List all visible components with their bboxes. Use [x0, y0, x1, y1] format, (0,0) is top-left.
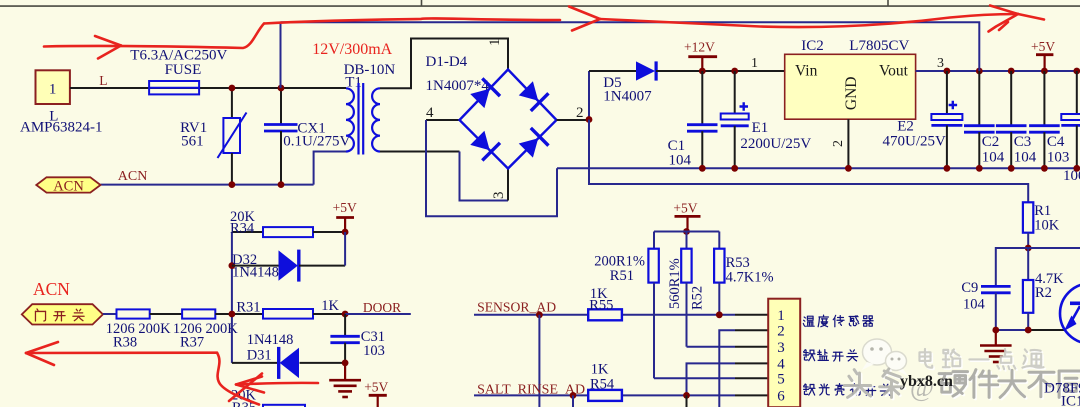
svg-text:R34: R34 — [230, 220, 255, 236]
svg-text:R55: R55 — [589, 298, 613, 314]
svg-text:C9: C9 — [961, 280, 978, 296]
resistor R52 560R1% — [686, 232, 688, 249]
svg-text:R38: R38 — [113, 335, 137, 351]
sheet border line — [0, 5, 1080, 7]
ground symbol (door) — [344, 363, 346, 380]
resistor R53 4.7K1% — [718, 232, 720, 249]
resistor R2 4.7K — [1027, 248, 1029, 280]
svg-text:12V/300mA: 12V/300mA — [312, 41, 392, 58]
wire SALT_RINSE_AD — [474, 394, 588, 396]
wire door net — [103, 313, 117, 315]
power +5V symbol (R34) — [344, 218, 346, 233]
svg-text:1N4148: 1N4148 — [232, 265, 279, 281]
svg-text:103: 103 — [363, 343, 385, 359]
varistor RV1 561 — [231, 88, 233, 118]
wire bridge pin2 node — [557, 119, 590, 121]
red annotation: top long line — [264, 18, 560, 23]
resistor R37 1206 200K — [182, 309, 215, 318]
border tick 2 — [887, 0, 889, 6]
wire emitter/gnd rail — [996, 329, 1028, 331]
wire sensor branch down — [538, 315, 540, 407]
wire L (connector to transformer) — [70, 87, 346, 89]
svg-text:ACN: ACN — [118, 169, 148, 184]
watermark text yingjian-dabutong — [941, 371, 1080, 399]
label salt switch (CJK) — [804, 350, 815, 361]
diode D (bridge top-right) — [517, 79, 548, 110]
svg-text:C4: C4 — [1047, 134, 1065, 150]
svg-text:Vout: Vout — [879, 63, 909, 80]
svg-text:104: 104 — [982, 150, 1005, 166]
diode D31 1N4148 — [232, 362, 280, 364]
wire pin5 net (R51) — [654, 377, 735, 379]
wire transformer top to bridge pin1 — [380, 39, 508, 89]
resistor R31 1K — [263, 309, 313, 319]
capacitor E2 470U/25V — [946, 71, 948, 114]
wire pin3 net (R52) — [687, 346, 736, 348]
svg-text:E1: E1 — [752, 120, 769, 136]
ground symbol (right) — [995, 330, 997, 345]
svg-text:+5V: +5V — [1031, 39, 1055, 54]
label rinse-aid switch (CJK) — [804, 384, 815, 395]
svg-text:0.1U/275V: 0.1U/275V — [283, 134, 350, 150]
wire SENSOR_AD — [474, 314, 588, 316]
svg-text:R37: R37 — [180, 335, 204, 351]
svg-text:SENSOR_AD: SENSOR_AD — [477, 301, 556, 316]
resistor R1 10K — [1023, 202, 1033, 232]
svg-text:DOOR: DOOR — [363, 300, 401, 315]
svg-text:5: 5 — [777, 372, 785, 388]
svg-text:561: 561 — [181, 134, 204, 150]
wire DOOR — [345, 313, 411, 315]
svg-text:+5V: +5V — [673, 201, 697, 216]
svg-text:Vin: Vin — [795, 63, 818, 80]
svg-text:1K: 1K — [591, 362, 609, 378]
svg-text:1N4007: 1N4007 — [603, 89, 652, 105]
transistor Q1 (clipped at edge) — [1060, 284, 1080, 344]
+5V rail junction dots — [944, 68, 951, 75]
svg-text:C3: C3 — [1014, 134, 1032, 150]
diode D (bridge bottom-left) — [468, 129, 499, 160]
red annotation: top arrow left segment — [44, 6, 1044, 59]
connector P1 box — [36, 70, 70, 104]
svg-text:C2: C2 — [982, 134, 1000, 150]
capacitor C1 104 — [701, 71, 703, 124]
power port ACN flag — [36, 177, 100, 192]
watermark text toutiao — [846, 370, 905, 398]
svg-text:+12V: +12V — [684, 40, 715, 55]
wire salt branch down — [572, 395, 574, 407]
wire raw DC down-right to R1 — [589, 120, 1028, 203]
fuse FUSE T6.3A/AC250V — [149, 81, 199, 94]
svg-text:R54: R54 — [590, 377, 615, 393]
svg-text:103: 103 — [1047, 150, 1070, 166]
svg-text:104: 104 — [669, 153, 692, 169]
svg-text:4.7K1%: 4.7K1% — [726, 270, 774, 286]
svg-text:3: 3 — [777, 340, 785, 356]
svg-text:104: 104 — [963, 297, 986, 313]
svg-text:IC1: IC1 — [1061, 394, 1080, 407]
node vertical (R34/D32/D31 branch) — [231, 232, 233, 314]
label temperature sensor (CJK) — [803, 316, 814, 326]
svg-text:2: 2 — [831, 140, 846, 147]
svg-text:R31: R31 — [236, 300, 260, 316]
diode D (bridge top-left) — [468, 78, 499, 109]
svg-text:1K: 1K — [321, 298, 339, 314]
watermark wechat bubbles — [862, 339, 908, 376]
wire pullup rail — [654, 231, 719, 233]
svg-text:3: 3 — [937, 56, 944, 71]
power port door-switch flag — [22, 304, 103, 324]
wire Vout to +5V rail — [916, 70, 1080, 72]
wire transformer bottom to bridge pin3 — [380, 151, 460, 153]
svg-text:1: 1 — [487, 39, 503, 47]
resistor R55 1K — [588, 309, 622, 320]
diode D5 1N4007 — [589, 70, 636, 72]
capacitor C2 104 — [978, 71, 980, 125]
capacitor E1 2200U/25V — [734, 71, 736, 114]
svg-text:D31: D31 — [247, 348, 272, 364]
resistor R54 1K — [588, 390, 622, 401]
connector J (temp/salt/rinse) — [768, 299, 800, 407]
svg-text:E2: E2 — [897, 119, 914, 135]
regulator IC2 L7805CV — [785, 54, 916, 119]
svg-text:L: L — [99, 73, 107, 88]
wire base node — [1028, 247, 1080, 249]
capacitor C9 104 — [981, 285, 1011, 288]
svg-text:1: 1 — [777, 308, 785, 324]
svg-text:470U/25V: 470U/25V — [883, 134, 947, 150]
svg-text:2: 2 — [576, 105, 584, 121]
svg-text:ybx8.cn: ybx8.cn — [900, 373, 953, 390]
wire +5V feed to top — [281, 22, 980, 71]
wire bridge pin4 to ground rail — [426, 119, 460, 121]
power +12V symbol — [701, 57, 703, 71]
wire ACN bottom rail — [101, 184, 314, 186]
wire bridge pin3 stub — [507, 169, 509, 201]
svg-text:ACN: ACN — [33, 279, 70, 299]
capacitor CX1 0.1U/275V — [280, 88, 282, 124]
diode D32 1N4148 — [232, 265, 279, 267]
power +5V symbol (top right) — [1043, 55, 1045, 71]
ground rail junction dots — [699, 165, 706, 172]
red annotation: right big arrowhead — [990, 6, 1018, 15]
resistor R38 1206 200K — [117, 309, 150, 318]
svg-text:6: 6 — [777, 389, 785, 405]
capacitor C3 104 — [1010, 71, 1012, 125]
svg-text:AMP63824-1: AMP63824-1 — [20, 120, 103, 136]
svg-text:ACN: ACN — [53, 178, 84, 194]
svg-text:R52: R52 — [690, 286, 706, 310]
svg-text:D1-D4: D1-D4 — [426, 54, 468, 70]
svg-text:4: 4 — [777, 357, 785, 373]
svg-text:4: 4 — [426, 105, 434, 121]
svg-text:T6.3A/AC250V: T6.3A/AC250V — [130, 48, 227, 64]
svg-text:R51: R51 — [610, 268, 634, 284]
diode D (bridge bottom-right) — [517, 128, 548, 159]
wire pin2 net — [719, 330, 735, 407]
svg-text:2: 2 — [777, 324, 785, 340]
svg-text:3: 3 — [491, 192, 507, 200]
ground rail — [557, 167, 1080, 169]
svg-text:GND: GND — [843, 77, 860, 111]
svg-text:10K: 10K — [1034, 218, 1060, 234]
svg-text:+5V: +5V — [364, 380, 388, 395]
svg-text:560R1%: 560R1% — [667, 258, 683, 309]
svg-text:+5V: +5V — [333, 200, 357, 215]
IC2 pin2 stub — [847, 119, 849, 168]
svg-text:IC2: IC2 — [801, 38, 824, 54]
svg-text:FUSE: FUSE — [165, 62, 202, 78]
junction dots on ACN rail — [229, 181, 236, 188]
wire step to transformer bottom — [314, 152, 346, 185]
border tick 1 — [421, 0, 423, 6]
connector pin stubs — [735, 314, 768, 316]
svg-text:104: 104 — [1014, 150, 1037, 166]
wire pin4 net to salt — [687, 363, 736, 395]
svg-text:1: 1 — [751, 56, 758, 71]
capacitor E3 (edge, 100..) — [1076, 71, 1078, 114]
svg-text:L7805CV: L7805CV — [849, 38, 909, 54]
svg-text:R2: R2 — [1035, 285, 1052, 301]
capacitor C4 103 — [1043, 71, 1045, 125]
svg-text:2200U/25V: 2200U/25V — [740, 136, 811, 152]
capacitor C31 103 — [344, 314, 346, 336]
svg-text:1: 1 — [49, 82, 57, 98]
svg-text:1N4148: 1N4148 — [247, 332, 294, 348]
watermark text dianlu-yidiantong — [921, 350, 1045, 370]
red annotation: bottom-left arrow — [26, 342, 318, 405]
resistor R51 200R1% — [653, 232, 655, 249]
junction dots on L wire — [229, 85, 236, 92]
resistor R34 20K — [232, 231, 263, 233]
